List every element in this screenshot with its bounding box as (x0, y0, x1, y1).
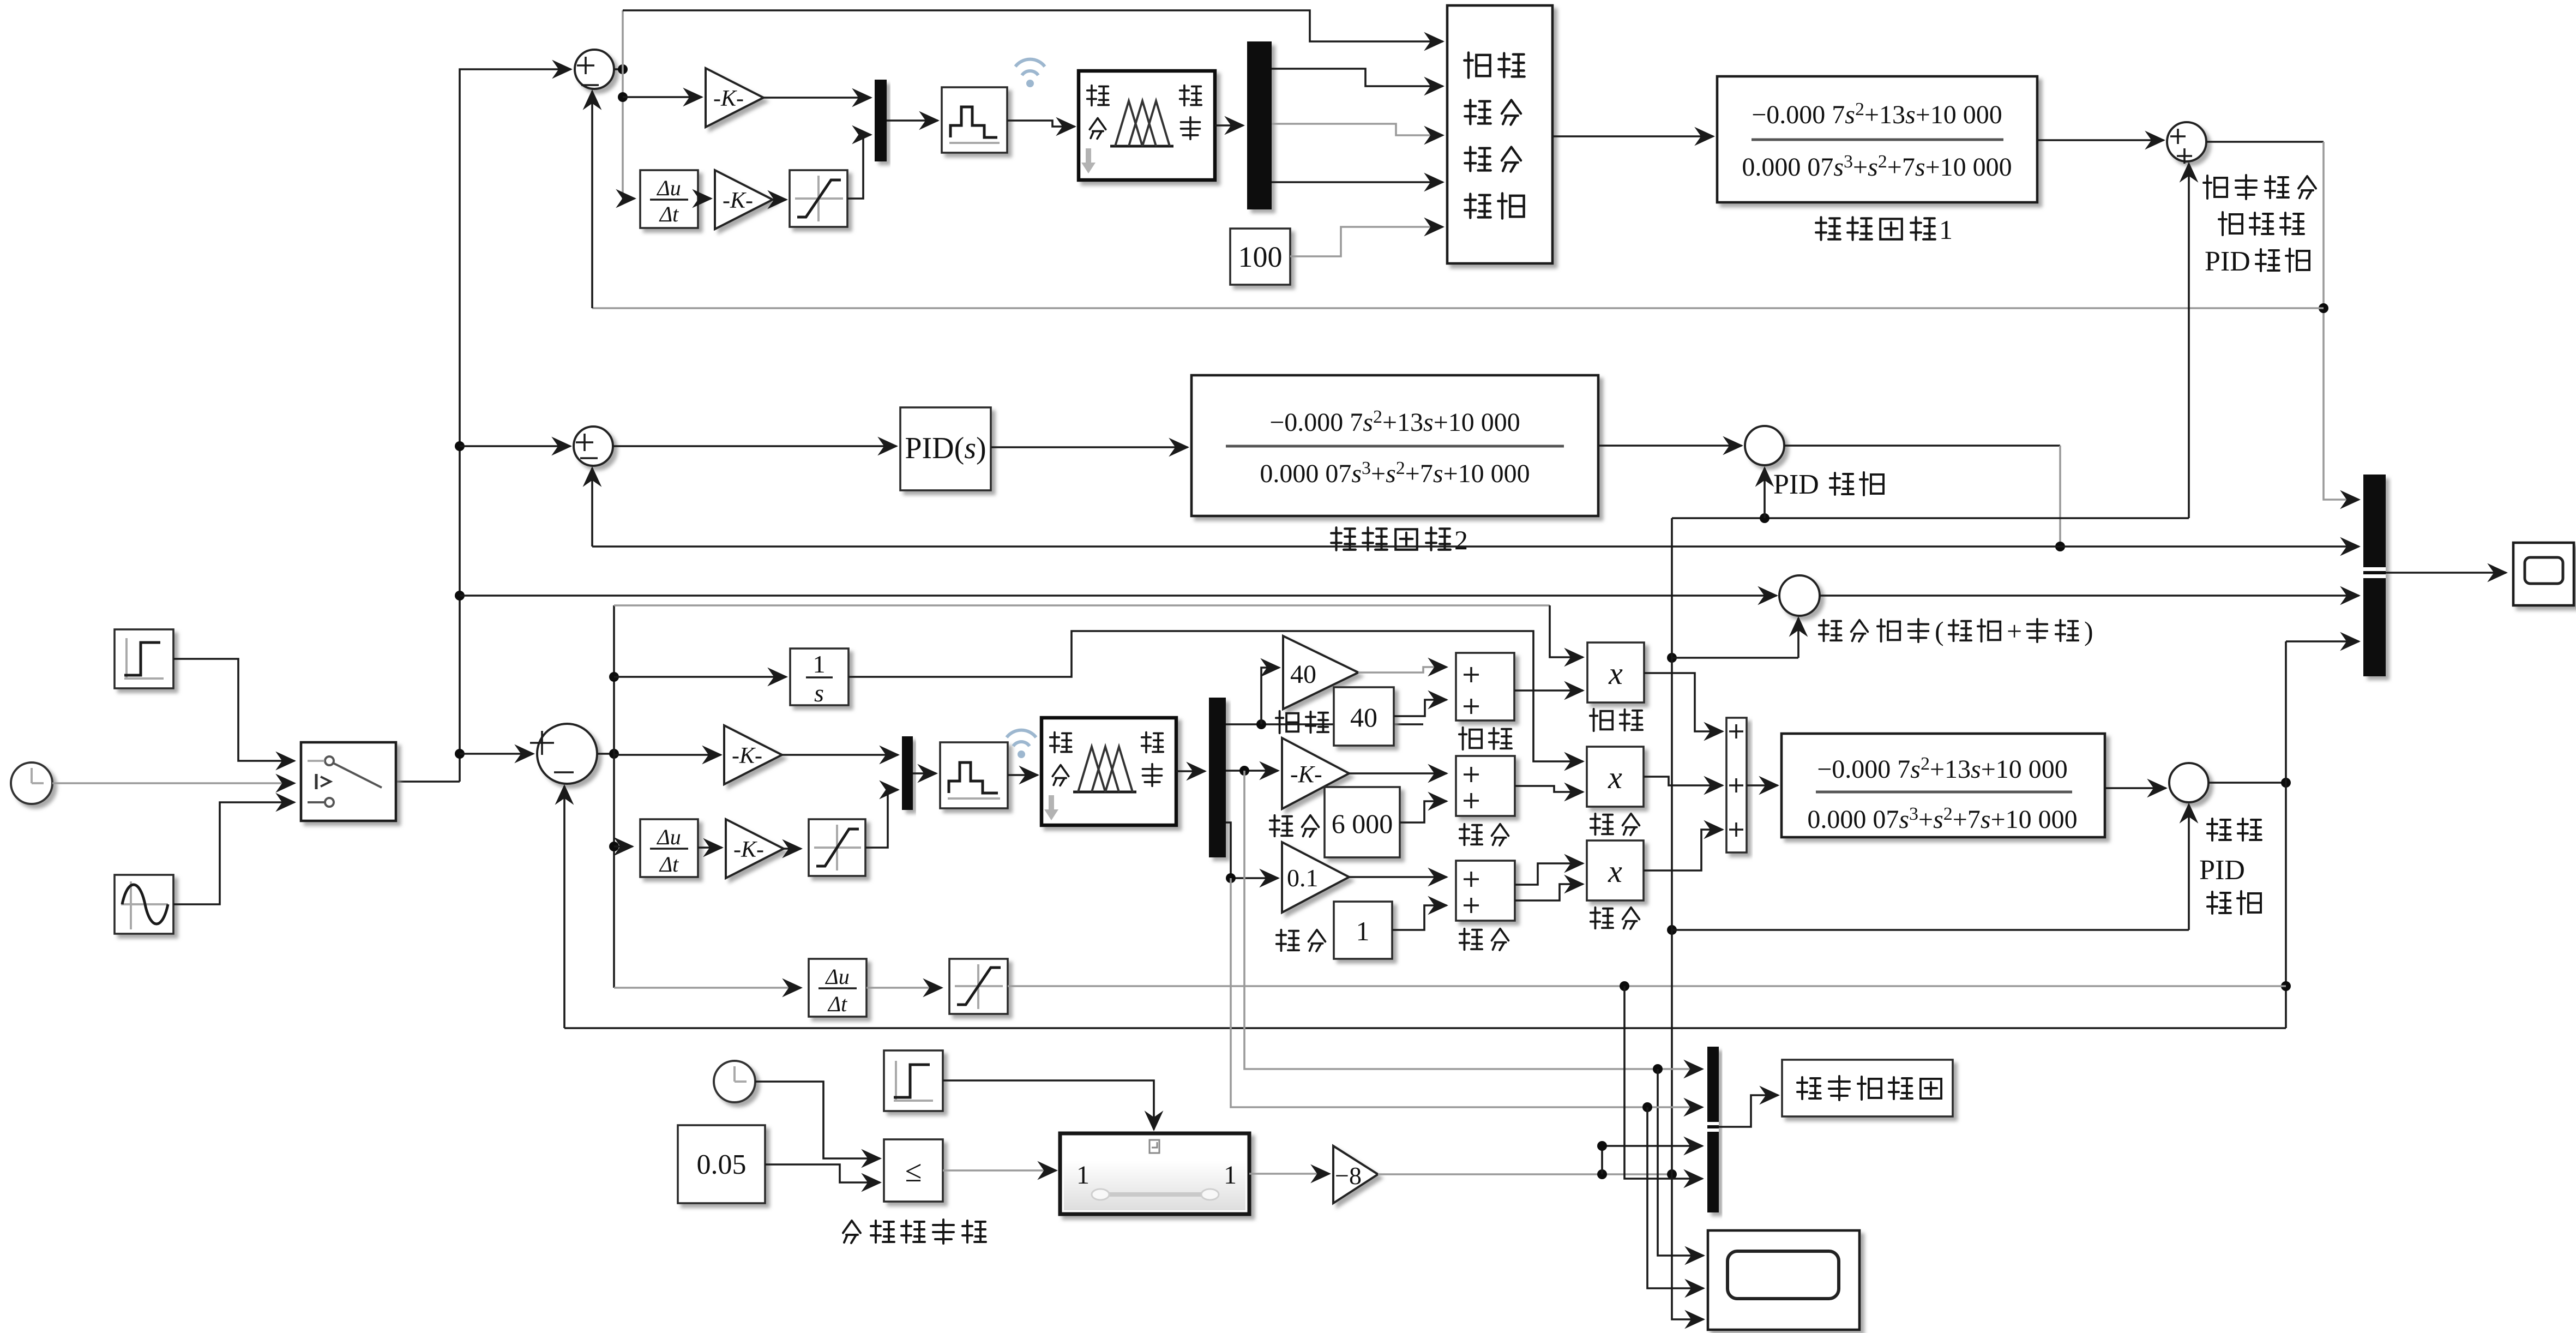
wire TF1 to sum S3 (2037, 139, 2164, 141)
wire S3 output to right riser (2206, 141, 2324, 143)
label relational operator (843, 1221, 860, 1243)
mux M1 (875, 80, 887, 161)
svg-text:+: + (2007, 616, 2022, 646)
quantizer Q1 (942, 87, 1007, 153)
wire Q2 to fuzzy F2 (1008, 774, 1038, 776)
svg-text:1: 1 (1224, 1161, 1237, 1190)
wire mux M1 to quantizer Q1 (887, 119, 938, 122)
source sine SINE1 (115, 875, 173, 934)
wire riser down to mux input1 (2324, 142, 2359, 500)
svg-text:1: 1 (1356, 916, 1370, 946)
svg-text:-K-: -K- (723, 188, 753, 213)
switch SW1 (multiport switch) (301, 742, 396, 821)
gain K4 (726, 819, 784, 878)
wire disturbance riser to S6 bottom (1667, 653, 1677, 663)
wire Du/Dt2 to gain K4 (698, 846, 722, 849)
constant 40 (1334, 687, 1394, 746)
wire D1 port1 to PID module port2 (1272, 69, 1443, 86)
mux M2 (902, 736, 913, 810)
saturation SAT2 (809, 819, 865, 876)
wire gain -8 output (disturbance) (1378, 1173, 1672, 1175)
node disturbance to PID sum (1760, 513, 1770, 523)
wire sat3 line drop to mux B input4 (1624, 986, 1702, 1179)
wire mux A to scope SC1 (2386, 572, 2506, 574)
label proportional (under X1) (1590, 709, 1612, 731)
svg-text:x: x (1608, 760, 1622, 795)
svg-text:6 000: 6 000 (1332, 808, 1393, 839)
wire X1 to sum A4 in1 (1644, 673, 1723, 731)
svg-text:−0.000 7s2+13s+10 000: −0.000 7s2+13s+10 000 (1752, 99, 2002, 129)
wire fuzzy feedback bottom line (564, 786, 2286, 1028)
wire D2 port3 to gain 0.1 (1226, 822, 1278, 878)
wire r line to input-signal sum (460, 595, 1777, 597)
wire disturbance up to sum S3 (2188, 164, 2190, 518)
block derivative Du/Dt 1 (640, 170, 698, 228)
label proportional (under sum A1) (1459, 728, 1482, 749)
quantizer Q2 (940, 742, 1008, 808)
svg-text:-K-: -K- (1290, 761, 1322, 788)
sum S4 (fuzzy error sum) (460, 753, 533, 755)
source clock CLK1 (11, 762, 52, 804)
label fuzzy PID control (2207, 819, 2231, 840)
wire gain K5 to sum A2 (1349, 772, 1447, 774)
wire X3 to sum A4 in3 (1644, 830, 1723, 870)
wire branch a to scope SC2 in1 (1658, 1069, 1704, 1256)
svg-text:≤: ≤ (905, 1155, 922, 1188)
transfer function TF3 (1781, 734, 2105, 837)
wire constant 40 to sum A1 in2 (1394, 700, 1447, 716)
gain -8 (1333, 1146, 1378, 1203)
wire sum A1 to product X1 (1514, 689, 1583, 692)
product X1 (proportional) (1587, 643, 1644, 702)
svg-text:0.1: 0.1 (1287, 864, 1319, 892)
svg-text:PID: PID (2199, 855, 2245, 886)
sum A4 (+++ vertical) (1726, 718, 1747, 852)
svg-text:−8: −8 (1335, 1162, 1362, 1190)
transfer function TF1 (1717, 76, 2037, 202)
svg-text:-K-: -K- (713, 86, 744, 111)
source step STEP1 (115, 629, 173, 688)
wire sum A3 to product X3 in2 (1515, 884, 1583, 900)
svg-text:-K-: -K- (733, 837, 764, 862)
wire integrator to x-integral product (848, 631, 1583, 761)
wire slider to gain -8 (1249, 1173, 1329, 1175)
label integral (under gain K5) (1270, 815, 1292, 836)
svg-text:): ) (2084, 616, 2093, 646)
wire STEP2 to slider top (943, 1080, 1154, 1130)
node error to derivative row (609, 842, 619, 851)
wire gain K4 to saturation SAT2 (784, 848, 801, 850)
slider gain block (1060, 1133, 1249, 1214)
label transfer function 2 (1331, 527, 1356, 550)
label input signal (regulation + disturbance) (1819, 620, 1841, 641)
icon wifi W2 (1007, 730, 1036, 746)
sum A2 (integral ++) (1456, 756, 1515, 816)
wire top run to PID module port1 (623, 10, 1443, 41)
wire sum1 output stub (614, 68, 623, 70)
wire disturbance riser (1667, 1169, 1677, 1179)
label derivative (under X3) (1591, 908, 1613, 928)
svg-text:0.000 07s3+s2+7s+10 000: 0.000 07s3+s2+7s+10 000 (1742, 152, 2012, 182)
svg-text:Δu: Δu (656, 825, 681, 849)
node S4 output on error bus (597, 753, 614, 755)
node riser to saturated-derivative line (2281, 981, 2291, 991)
svg-text:Δt: Δt (659, 852, 679, 876)
node PID output joins line (2055, 542, 2065, 551)
wire fuzzy output riser (2285, 641, 2287, 1028)
svg-text:0.000 07s3+s2+7s+10 000: 0.000 07s3+s2+7s+10 000 (1807, 804, 2077, 834)
product X3 (derivative) (1587, 840, 1644, 900)
svg-text:Δt: Δt (659, 202, 679, 226)
sum S6 (input signal sum) (1779, 575, 1820, 616)
wire error to Du/Dt 2 (614, 845, 633, 848)
label derivative (under gain 0.1) (1277, 930, 1299, 951)
label integral (under X2) (1591, 814, 1613, 834)
wire SAT3 output joins fuzzy riser (1008, 985, 2286, 987)
svg-text:40: 40 (1290, 660, 1316, 689)
node r-sum2 (455, 441, 465, 451)
node tap a on integral channel (1239, 766, 1249, 776)
wire constant 1 to sum A3 in2 (1392, 905, 1447, 930)
wire STEP1 to switch in1 (173, 659, 294, 761)
svg-text:Δu: Δu (656, 176, 681, 200)
wire r riser from switch output up to sum1 (396, 69, 571, 782)
wire PID output line to mux input2 (also sum2 feedback) (592, 545, 2359, 548)
wire D2 port1 to gain 40 (1226, 723, 1423, 725)
wire F1 to demux D1 (1215, 124, 1243, 127)
wire relational operator to slider (943, 1169, 1056, 1172)
wire gain K2 to saturation SAT1 (773, 199, 786, 201)
wire branch b to scope SC2 in2 (1647, 1107, 1704, 1288)
wire demux D2 signal a down to mux B input1 (1244, 771, 1702, 1069)
wire SAT1 to mux M1 port2 (847, 135, 871, 199)
scope SC2 (bottom) (1708, 1230, 1859, 1330)
svg-text:100: 100 (1238, 241, 1283, 273)
product X2 (integral) (1587, 747, 1644, 807)
relational operator block (884, 1139, 943, 1202)
node feedback tap on riser (2319, 303, 2328, 313)
block PID(s) controller (900, 407, 991, 490)
wire mux B to To-Workspace (1719, 1095, 1778, 1127)
svg-text:1: 1 (1939, 214, 1953, 245)
wire error to gain K3 (614, 754, 721, 756)
wire X2 to sum A4 in2 (1644, 777, 1723, 785)
constant 0.05 (678, 1125, 765, 1203)
block derivative Du/Dt 2 (640, 819, 698, 877)
wire TF2 to sum S5 (1598, 445, 1742, 447)
block derivative Du/Dt 3 (809, 959, 866, 1017)
wire disturbance distribution line y950 (1672, 517, 2189, 519)
node sum1 branch to gain (618, 92, 628, 102)
wire gain40 to sum A1 (1358, 667, 1447, 672)
wire main feedback to sum S1 (592, 307, 2324, 309)
svg-text:PID: PID (2205, 246, 2250, 277)
wire SAT2 to mux M2 port2 (865, 790, 898, 848)
wire demux D2 signal b down to mux B input2 (1231, 878, 1702, 1107)
source step STEP2 (884, 1050, 943, 1111)
wire sum1 to gain K1 (623, 96, 702, 98)
node sum1 output (618, 64, 628, 74)
svg-text:x: x (1608, 854, 1622, 889)
svg-text:(: ( (1935, 616, 1944, 646)
wire sum1 out vertical distribution (623, 10, 635, 199)
sum S5 (PID control output point) (1745, 426, 1784, 465)
saturation SAT1 (790, 170, 847, 227)
wire S5 output to PID row (1784, 445, 2060, 447)
gain K2 (715, 170, 773, 229)
wire 0.05 to relational operator in2 (765, 1164, 880, 1182)
wire CLK2 to relational operator in1 (755, 1082, 880, 1158)
wire F2 to demux D2 (1176, 770, 1205, 772)
wire sum A3 to product X3 in1 (1515, 863, 1583, 885)
sum S1 (top error sum) (575, 50, 614, 89)
label derivative (under sum A3) (1460, 929, 1482, 950)
gain K3 (724, 725, 782, 784)
wire disturbance to S7 bottom (1667, 925, 1677, 935)
saturation SAT3 (949, 959, 1008, 1014)
gain 40 triangle (1283, 636, 1358, 709)
gain K1 (706, 68, 763, 127)
svg-text:2: 2 (1454, 525, 1468, 555)
svg-text:-K-: -K- (732, 743, 762, 768)
constant 1 (1334, 902, 1392, 959)
wire error bus vertical (613, 605, 615, 988)
svg-text:0.000 07s3+s2+7s+10 000: 0.000 07s3+s2+7s+10 000 (1260, 458, 1530, 488)
constant 6000 (1325, 787, 1400, 857)
wire error to integrator 1/s (614, 676, 786, 678)
mux B (output recorder mux) (1707, 1047, 1719, 1212)
wire TF3 to sum S7 (2105, 787, 2166, 789)
node r-inputline (455, 591, 465, 601)
source clock CLK2 (714, 1061, 755, 1102)
constant 100 (1230, 229, 1290, 285)
label integral (under sum A2) (1460, 824, 1482, 845)
block To-Workspace (output memory) (1782, 1060, 1953, 1116)
block PID module (proportional-integral-derivative module) (1447, 5, 1552, 263)
svg-text:Δu: Δu (824, 964, 849, 989)
wire PID module to transfer fn TF1 (1552, 135, 1713, 137)
svg-text:Δt: Δt (827, 992, 847, 1016)
fuzzy logic controller F1 (1079, 71, 1215, 180)
sum A1 (proportional ++) (1456, 653, 1514, 720)
label transfer function 1 (1816, 217, 1840, 240)
sum A3 (derivative ++) (1456, 861, 1515, 921)
svg-text:1: 1 (813, 650, 826, 678)
wire sum A4 to TF3 (1747, 784, 1778, 786)
gain 0.1 triangle (1282, 842, 1349, 912)
wire mux M2 to quantizer Q2 (913, 772, 936, 774)
wire constant 6000 to sum A2 in2 (1400, 801, 1447, 822)
svg-text:−0.000 7s2+13s+10 000: −0.000 7s2+13s+10 000 (1269, 407, 1520, 437)
wire D1 port2 to PID module port3 (1272, 124, 1443, 135)
svg-text:s: s (814, 679, 824, 707)
wire -8 branch up to mux B input3 (1602, 1146, 1702, 1174)
sum S7 (fuzzy PID output point) (2169, 763, 2208, 802)
wire error bus to Du/Dt 3 (614, 987, 801, 989)
wire Du/Dt3 to saturation SAT3 (866, 987, 942, 989)
label pre-tuned fuzzy PID control (2204, 176, 2227, 199)
gain K5 (1282, 738, 1349, 809)
node sat3 line to bottom drop (1620, 981, 1629, 991)
wire SINE1 to switch in3 (173, 802, 294, 904)
wire D1 port3 to PID module port4 (1272, 181, 1443, 183)
wire D2 port2 to gain K5 (1226, 770, 1278, 772)
wire Q1 to fuzzy F1 (1007, 121, 1075, 127)
wire PID(s) to TF2 (991, 446, 1188, 448)
label proportional (under gain 40) (1276, 711, 1298, 733)
block integrator 1/s (790, 649, 848, 705)
wire r to sum S2 (460, 445, 570, 447)
mux A (right main mux) (2363, 475, 2386, 676)
node r-sum4 (455, 749, 465, 759)
fuzzy logic controller F2 (1042, 718, 1176, 825)
wire sum A2 to product X2 (1515, 786, 1583, 792)
demux D2 (1209, 698, 1226, 857)
sum S2 (PID error sum) (574, 427, 613, 466)
svg-text:0.05: 0.05 (697, 1149, 747, 1180)
wire Du/Dt to gain K2 (698, 197, 711, 200)
wire error to x-proportional product (gray top run) (614, 604, 1550, 607)
wire gain K1 to mux M1 (763, 97, 871, 99)
wire gain 0.1 to sum A3 (1349, 876, 1447, 878)
svg-text:PID(s): PID(s) (905, 431, 986, 465)
wire S7 output to right riser (2208, 782, 2286, 784)
svg-text:PID: PID (1773, 469, 1819, 500)
node tap b on derivative channel (1226, 873, 1236, 883)
wire constant 100 to PID module port5 (1290, 227, 1443, 256)
icon wifi W1 (1015, 59, 1045, 75)
svg-text:−0.000 7s2+13s+10 000: −0.000 7s2+13s+10 000 (1817, 754, 2068, 784)
transfer function TF2 (1191, 375, 1598, 516)
node error to integrator (609, 672, 619, 682)
scope SC1 (top right) (2513, 543, 2574, 605)
wire CLK1 to switch in2 (52, 782, 294, 784)
svg-text:40: 40 (1350, 702, 1377, 732)
demux D1 (1247, 41, 1272, 209)
wire S2 to PID(s) (613, 445, 896, 447)
svg-text:x: x (1608, 656, 1623, 691)
sum S3 (pre-tuned fuzzy output sum) (2167, 122, 2206, 161)
svg-text:1: 1 (1076, 1161, 1090, 1190)
wire gain K3 to mux M2 (782, 754, 898, 756)
wire S6 output to mux input3 (1820, 595, 2359, 597)
